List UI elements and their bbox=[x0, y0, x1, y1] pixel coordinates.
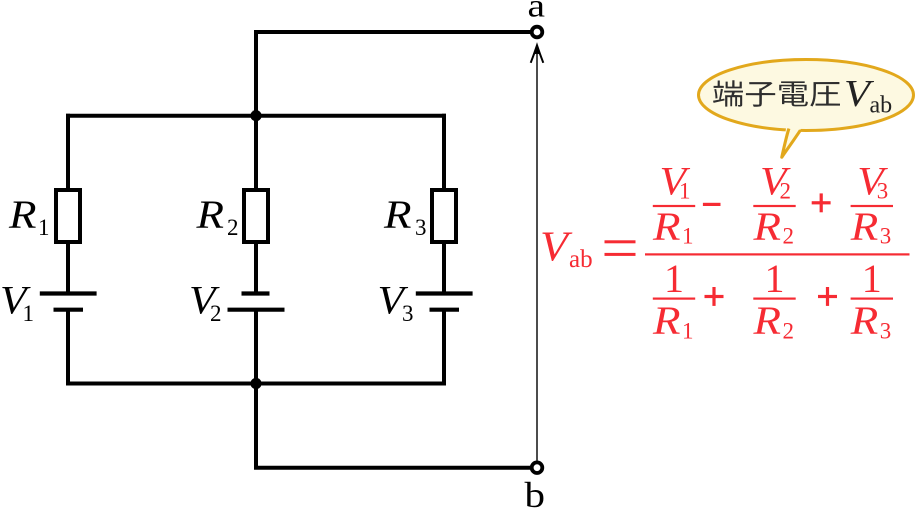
svg-text:2: 2 bbox=[780, 179, 792, 204]
wire: bottom lead from node down and right to terminal b bbox=[256, 384, 531, 468]
wire: right branch battery-to-bottom-bus bbox=[442, 311, 446, 384]
terminal a bbox=[532, 27, 543, 38]
svg-text:ab: ab bbox=[870, 93, 893, 119]
arrow shaft b to a bbox=[536, 46, 538, 461]
arrow head bbox=[531, 45, 544, 63]
wire: left branch battery-to-bottom-bus bbox=[66, 311, 70, 384]
wire: middle branch resistor-to-battery bbox=[254, 242, 258, 292]
wire: middle branch battery-to-bottom-bus bbox=[254, 311, 258, 384]
svg-text:1: 1 bbox=[679, 179, 691, 204]
svg-text:R: R bbox=[8, 192, 37, 237]
svg-text:R: R bbox=[652, 204, 681, 249]
wire: top node bus bbox=[66, 114, 446, 118]
svg-text:R: R bbox=[752, 298, 781, 343]
svg-text:V: V bbox=[540, 225, 573, 271]
svg-text:1: 1 bbox=[862, 256, 882, 301]
wire: right branch resistor-to-battery bbox=[442, 242, 446, 292]
wire: middle branch top vertical bbox=[254, 116, 258, 190]
svg-text:2: 2 bbox=[783, 224, 795, 249]
wire: left branch resistor-to-battery bbox=[66, 242, 70, 292]
svg-text:3: 3 bbox=[415, 215, 427, 240]
equals sign bbox=[605, 240, 636, 243]
battery V3 long plate (+) bbox=[416, 291, 473, 295]
terminal b bbox=[532, 462, 543, 473]
battery V3 short plate (-) bbox=[430, 308, 460, 312]
denominator plus 1 bbox=[705, 295, 724, 298]
bubble tail fill bbox=[782, 126, 802, 157]
formula Vab bbox=[540, 159, 910, 344]
svg-text:3: 3 bbox=[877, 179, 889, 204]
svg-text:R: R bbox=[850, 298, 879, 343]
svg-text:R: R bbox=[383, 192, 412, 237]
bubble text kanji TanshiDenatsu bbox=[713, 80, 840, 107]
battery V2 short plate (-) on top bbox=[242, 291, 270, 295]
junction node bottom bbox=[250, 378, 261, 389]
svg-text:R: R bbox=[652, 298, 681, 343]
svg-text:1: 1 bbox=[38, 215, 50, 240]
wire: left branch top vertical bbox=[66, 114, 70, 190]
numerator minus bbox=[703, 203, 721, 206]
svg-text:1: 1 bbox=[765, 256, 785, 301]
svg-text:2: 2 bbox=[227, 215, 239, 240]
junction node top bbox=[250, 110, 261, 121]
battery V1 long plate (+) bbox=[40, 291, 97, 295]
battery V2 long plate (+) on bottom bbox=[228, 308, 285, 312]
battery V1 short plate (-) bbox=[54, 308, 84, 312]
resistor R2 bbox=[244, 190, 268, 242]
svg-text:R: R bbox=[752, 204, 781, 249]
svg-text:2: 2 bbox=[783, 319, 795, 344]
svg-text:3: 3 bbox=[880, 224, 892, 249]
svg-text:b: b bbox=[525, 475, 546, 510]
resistor R1 bbox=[56, 190, 80, 242]
denominator plus 2 bbox=[818, 295, 837, 298]
svg-text:1: 1 bbox=[682, 319, 694, 344]
svg-text:R: R bbox=[195, 192, 224, 237]
wire: right branch top vertical bbox=[442, 114, 446, 190]
svg-text:a: a bbox=[528, 0, 546, 25]
wire: bottom node bus bbox=[66, 382, 446, 386]
svg-text:1: 1 bbox=[682, 224, 694, 249]
numerator plus bbox=[812, 201, 831, 204]
svg-text:R: R bbox=[850, 204, 879, 249]
svg-text:1: 1 bbox=[664, 256, 684, 301]
svg-text:1: 1 bbox=[23, 301, 35, 326]
bubble tail edges bbox=[782, 129, 801, 158]
svg-text:3: 3 bbox=[880, 319, 892, 344]
resistor R3 bbox=[432, 190, 456, 242]
svg-text:3: 3 bbox=[402, 301, 414, 326]
wire: top lead from node up and right to terminal a bbox=[256, 32, 531, 116]
speech bubble ellipse bbox=[699, 60, 914, 131]
main fraction bar bbox=[645, 253, 910, 255]
svg-text:2: 2 bbox=[210, 301, 222, 326]
svg-text:ab: ab bbox=[569, 246, 593, 273]
